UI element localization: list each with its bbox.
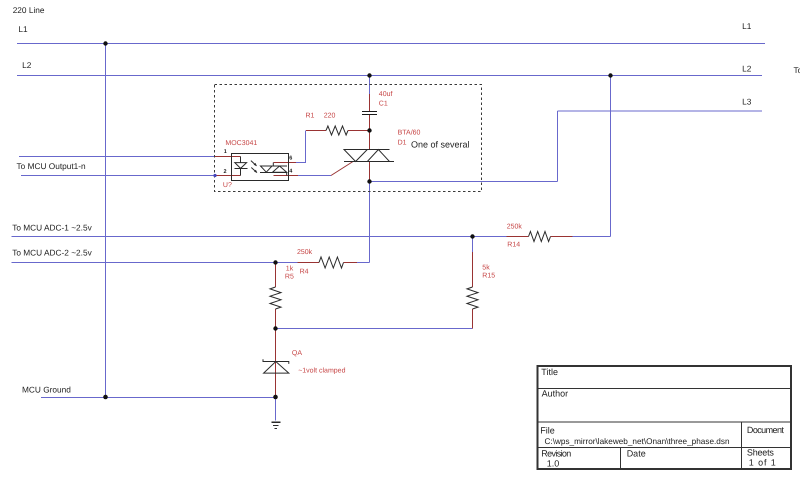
svg-text:250k: 250k <box>507 222 523 230</box>
svg-text:1: 1 <box>224 149 227 155</box>
svg-text:C:\wps_mirror\lakeweb_net\Onan: C:\wps_mirror\lakeweb_net\Onan\three_pha… <box>545 437 730 446</box>
svg-text:MOC3041: MOC3041 <box>225 140 257 147</box>
svg-text:L2: L2 <box>742 64 752 74</box>
svg-text:R14: R14 <box>507 242 520 249</box>
svg-text:220 Line: 220 Line <box>13 5 45 15</box>
svg-text:~1volt clamped: ~1volt clamped <box>298 367 345 375</box>
svg-text:D1: D1 <box>398 139 407 146</box>
svg-text:L1: L1 <box>742 21 752 31</box>
svg-text:220: 220 <box>324 113 336 120</box>
svg-text:1.0: 1.0 <box>547 459 560 469</box>
svg-text:QA: QA <box>292 350 302 357</box>
svg-text:R15: R15 <box>482 273 495 280</box>
svg-text:Sheets: Sheets <box>747 448 775 458</box>
svg-text:To MCU Output1-n: To MCU Output1-n <box>17 161 87 171</box>
svg-text:6: 6 <box>289 156 292 162</box>
svg-text:File: File <box>540 426 555 436</box>
svg-text:One of several: One of several <box>411 140 470 150</box>
svg-text:Revision: Revision <box>541 449 571 459</box>
svg-text:L1: L1 <box>18 24 28 34</box>
svg-text:C1: C1 <box>379 101 388 108</box>
svg-text:To MCU ADC-2 ~2.5v: To MCU ADC-2 ~2.5v <box>12 248 92 258</box>
svg-text:L2: L2 <box>22 60 32 70</box>
svg-text:4: 4 <box>289 169 293 175</box>
svg-text:1k: 1k <box>286 265 294 273</box>
svg-text:BTA/60: BTA/60 <box>398 129 421 137</box>
svg-text:250k: 250k <box>297 248 313 256</box>
svg-text:U?: U? <box>223 182 232 189</box>
svg-text:Date: Date <box>627 449 646 459</box>
svg-text:L3: L3 <box>742 96 752 106</box>
svg-text:1 of 1: 1 of 1 <box>749 458 776 468</box>
svg-text:2: 2 <box>224 169 227 175</box>
svg-text:MCU Ground: MCU Ground <box>22 385 71 395</box>
svg-text:R4: R4 <box>300 268 309 275</box>
svg-text:40uf: 40uf <box>379 90 393 98</box>
svg-text:Author: Author <box>542 389 569 399</box>
svg-text:R1: R1 <box>306 113 315 120</box>
svg-text:To MCU ADC-1 ~2.5v: To MCU ADC-1 ~2.5v <box>12 223 92 233</box>
svg-text:5k: 5k <box>482 264 490 272</box>
svg-text:Title: Title <box>541 367 558 377</box>
svg-text:Document: Document <box>747 425 784 435</box>
svg-text:To: To <box>794 65 800 75</box>
svg-text:R5: R5 <box>285 274 294 281</box>
